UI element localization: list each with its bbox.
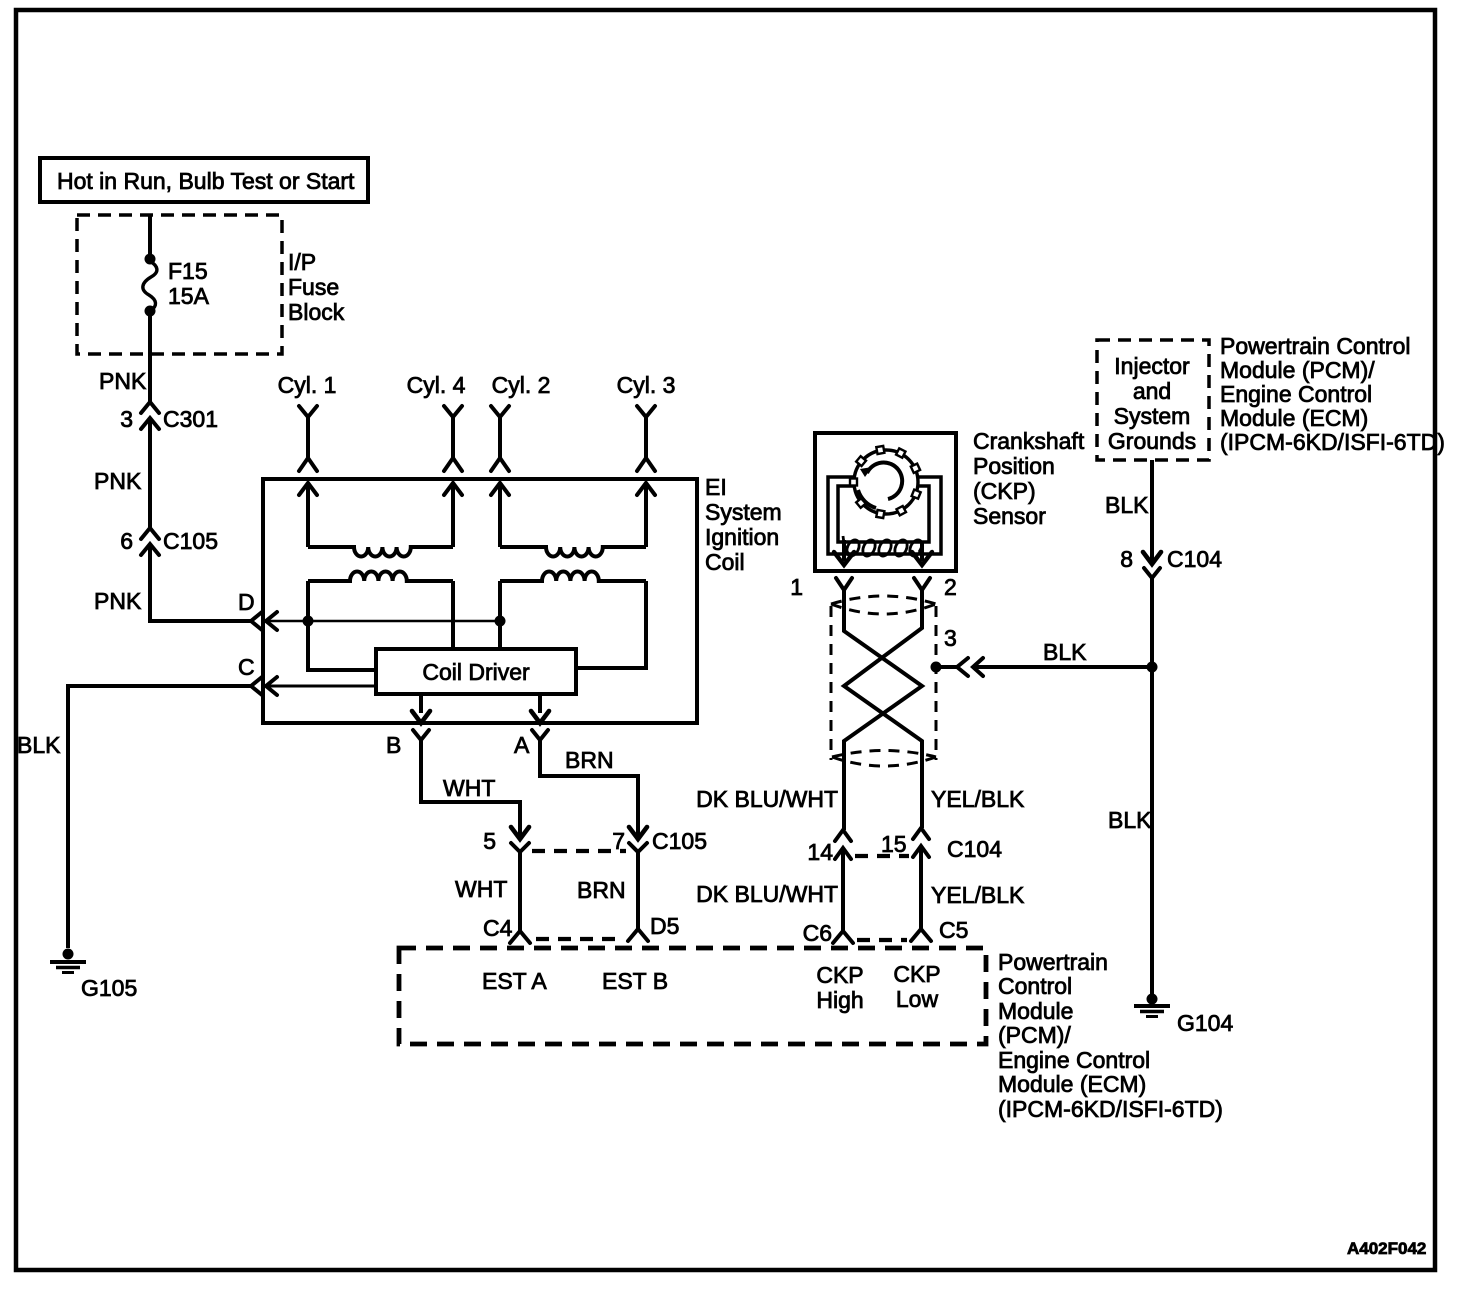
svg-text:Module (ECM): Module (ECM)	[998, 1071, 1146, 1097]
svg-text:F15: F15	[168, 258, 208, 284]
svg-text:B: B	[386, 732, 401, 758]
svg-text:G104: G104	[1177, 1010, 1233, 1036]
svg-text:Cyl. 1: Cyl. 1	[278, 372, 337, 398]
svg-text:C105: C105	[163, 528, 218, 554]
svg-text:2: 2	[944, 574, 957, 600]
svg-text:8: 8	[1120, 546, 1133, 572]
svg-text:(IPCM-6KD/ISFI-6TD): (IPCM-6KD/ISFI-6TD)	[1220, 429, 1445, 455]
svg-text:G105: G105	[81, 975, 137, 1001]
svg-text:Low: Low	[896, 986, 939, 1012]
svg-text:YEL/BLK: YEL/BLK	[931, 882, 1025, 908]
svg-text:DK BLU/WHT: DK BLU/WHT	[696, 786, 838, 812]
svg-text:Module: Module	[998, 998, 1073, 1024]
svg-text:3: 3	[120, 406, 133, 432]
svg-text:Grounds: Grounds	[1108, 428, 1196, 454]
svg-text:High: High	[816, 987, 863, 1013]
svg-text:Sensor: Sensor	[973, 503, 1046, 529]
svg-text:C104: C104	[947, 836, 1002, 862]
svg-text:DK BLU/WHT: DK BLU/WHT	[696, 881, 838, 907]
svg-text:BRN: BRN	[577, 877, 626, 903]
svg-text:Block: Block	[288, 299, 345, 325]
svg-text:6: 6	[120, 528, 133, 554]
svg-text:(IPCM-6KD/ISFI-6TD): (IPCM-6KD/ISFI-6TD)	[998, 1096, 1223, 1122]
svg-text:A402F042: A402F042	[1347, 1239, 1426, 1258]
svg-text:Hot in Run, Bulb Test or Start: Hot in Run, Bulb Test or Start	[57, 168, 355, 194]
svg-text:Cyl. 3: Cyl. 3	[617, 372, 676, 398]
svg-text:System: System	[705, 499, 782, 525]
svg-text:System: System	[1114, 403, 1191, 429]
svg-text:3: 3	[944, 625, 957, 651]
svg-text:15A: 15A	[168, 283, 210, 309]
svg-text:15: 15	[881, 831, 907, 857]
svg-text:CKP: CKP	[893, 961, 940, 987]
svg-text:BLK: BLK	[1108, 807, 1152, 833]
svg-text:BLK: BLK	[1043, 639, 1087, 665]
svg-text:C4: C4	[483, 915, 513, 941]
svg-text:A: A	[514, 732, 530, 758]
svg-text:BLK: BLK	[1105, 492, 1149, 518]
svg-text:D: D	[238, 589, 255, 615]
svg-text:C6: C6	[803, 920, 832, 946]
svg-text:D5: D5	[650, 913, 679, 939]
svg-text:EST A: EST A	[482, 968, 547, 994]
svg-text:(PCM)/: (PCM)/	[998, 1022, 1071, 1048]
svg-text:Cyl. 2: Cyl. 2	[492, 372, 551, 398]
svg-text:Module (PCM)/: Module (PCM)/	[1220, 357, 1375, 383]
svg-text:14: 14	[807, 839, 833, 865]
svg-text:WHT: WHT	[455, 876, 507, 902]
svg-text:C104: C104	[1167, 546, 1222, 572]
svg-text:Injector: Injector	[1114, 353, 1190, 379]
svg-text:C301: C301	[163, 406, 218, 432]
svg-text:EST B: EST B	[602, 968, 668, 994]
svg-text:C: C	[238, 654, 255, 680]
svg-text:5: 5	[483, 828, 496, 854]
svg-text:Engine Control: Engine Control	[998, 1047, 1150, 1073]
svg-text:Module (ECM): Module (ECM)	[1220, 405, 1368, 431]
svg-text:EI: EI	[705, 474, 727, 500]
svg-text:PNK: PNK	[94, 588, 142, 614]
svg-text:Powertrain Control: Powertrain Control	[1220, 333, 1410, 359]
svg-text:PNK: PNK	[94, 468, 142, 494]
svg-text:Coil Driver: Coil Driver	[422, 659, 530, 685]
svg-text:(CKP): (CKP)	[973, 478, 1036, 504]
svg-text:WHT: WHT	[443, 775, 495, 801]
svg-text:YEL/BLK: YEL/BLK	[931, 786, 1025, 812]
svg-text:Engine Control: Engine Control	[1220, 381, 1372, 407]
svg-text:Control: Control	[998, 973, 1072, 999]
svg-text:C5: C5	[939, 917, 968, 943]
svg-text:C105: C105	[652, 828, 707, 854]
svg-text:7: 7	[612, 828, 625, 854]
svg-text:Cyl. 4: Cyl. 4	[407, 372, 466, 398]
svg-text:Position: Position	[973, 453, 1055, 479]
svg-text:1: 1	[790, 574, 803, 600]
svg-text:and: and	[1133, 378, 1171, 404]
svg-text:Coil: Coil	[705, 549, 745, 575]
svg-text:I/P: I/P	[288, 249, 316, 275]
svg-text:BRN: BRN	[565, 747, 614, 773]
svg-text:Crankshaft: Crankshaft	[973, 428, 1085, 454]
svg-text:CKP: CKP	[816, 962, 863, 988]
svg-text:PNK: PNK	[99, 368, 147, 394]
svg-text:Fuse: Fuse	[288, 274, 339, 300]
svg-text:BLK: BLK	[17, 732, 61, 758]
svg-text:Powertrain: Powertrain	[998, 949, 1108, 975]
svg-text:Ignition: Ignition	[705, 524, 779, 550]
